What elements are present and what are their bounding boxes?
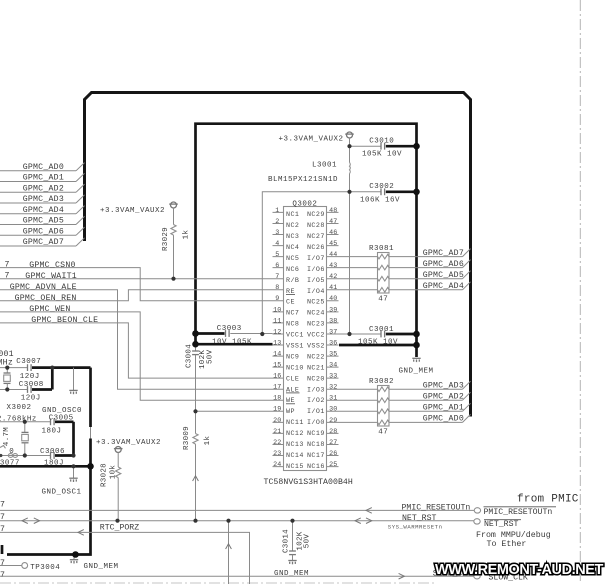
svg-text:X3002: X3002 [7, 404, 32, 412]
svg-text:NC29: NC29 [307, 211, 325, 219]
svg-text:31: 31 [329, 395, 337, 403]
crystal X3002 [22, 422, 29, 456]
svg-text:NC8: NC8 [286, 321, 299, 329]
capacitor C3004 [185, 344, 214, 434]
inductor L3001 [268, 161, 350, 184]
svg-text:1k: 1k [182, 230, 190, 240]
svg-text:SYS_WARMRESETn: SYS_WARMRESETn [388, 524, 443, 531]
svg-text:GPMC_AD7: GPMC_AD7 [23, 238, 64, 247]
svg-text:GND_OSC1: GND_OSC1 [42, 488, 82, 496]
svg-text:GPMC_AD6: GPMC_AD6 [423, 260, 464, 269]
stub (cut component, bottom left) [1, 545, 4, 554]
resistor lead fragment (4.7M, cut) [0, 446, 6, 449]
wire VCC1 branch to pin 12 [262, 192, 349, 334]
svg-text:I/O7: I/O7 [307, 255, 325, 263]
svg-text:39: 39 [329, 306, 337, 314]
wire VSS1 pin 13 thick [196, 343, 273, 346]
svg-text:27: 27 [329, 439, 337, 447]
wire GPMC_OEN_REN to RE pin 8 [0, 290, 273, 303]
svg-text:26: 26 [329, 450, 337, 458]
svg-text:I/O3: I/O3 [307, 386, 325, 394]
wire RTC_PORZ [0, 524, 250, 584]
svg-text:30: 30 [329, 406, 337, 414]
resistor R3077 0 ohm [0, 446, 20, 468]
svg-text:R3028: R3028 [100, 463, 108, 487]
svg-text:NC22: NC22 [307, 353, 325, 361]
test point TP3004 [0, 563, 60, 573]
svg-text:R/B: R/B [286, 277, 299, 285]
wire GPMC_AD5 (left bus entry) [0, 216, 85, 225]
svg-text:GPMC_AD5: GPMC_AD5 [423, 271, 464, 280]
svg-text:GPMC_AD7: GPMC_AD7 [423, 249, 464, 258]
svg-text:13: 13 [273, 339, 281, 347]
wire GPMC_AD1 (left bus entry) [0, 173, 85, 182]
svg-text:WWW.REMONT-AUD.NET: WWW.REMONT-AUD.NET [435, 562, 603, 578]
svg-text:11: 11 [273, 317, 281, 325]
watermark [435, 562, 603, 578]
junction dots (thin nets) [5, 144, 351, 523]
svg-text:33: 33 [329, 373, 337, 381]
svg-text:TP3004: TP3004 [30, 564, 60, 572]
svg-text:120J: 120J [21, 394, 41, 402]
svg-text:To Ether: To Ether [487, 539, 527, 549]
svg-text:NC27: NC27 [307, 233, 325, 241]
svg-text:NC24: NC24 [307, 310, 325, 318]
wire GND_OSC1 thick (y=466.3) [0, 465, 91, 468]
svg-text:41: 41 [329, 284, 337, 292]
svg-text:C3010: C3010 [369, 138, 394, 146]
svg-text:5: 5 [275, 251, 279, 259]
svg-text:0: 0 [9, 448, 14, 456]
power +3.3VAM_VAUX2 (R3028) [114, 447, 123, 453]
svg-text:NC23: NC23 [307, 321, 325, 329]
svg-text:9: 9 [275, 295, 279, 303]
svg-text:GND_MEM: GND_MEM [399, 367, 434, 375]
svg-text:C3006: C3006 [40, 448, 65, 456]
svg-text:7: 7 [275, 273, 279, 281]
svg-text:47: 47 [378, 295, 388, 303]
power +3.3VAM_VAUX2 (top) [345, 132, 354, 138]
wire GPMC_WAIT1 to R/B pin 7 [0, 272, 273, 281]
resistor array R3082 47 [369, 378, 394, 436]
svg-text:6: 6 [275, 262, 279, 270]
svg-text:VCC1: VCC1 [286, 332, 304, 340]
svg-text:46: 46 [329, 229, 337, 237]
svg-text:NC14: NC14 [286, 452, 304, 460]
svg-text:120J: 120J [20, 373, 40, 381]
Q3002 left pin names [286, 211, 304, 471]
svg-text:GPMC_AD0: GPMC_AD0 [423, 415, 464, 424]
svg-text:NC17: NC17 [307, 452, 325, 460]
wire PMIC_RESETOUTn [0, 503, 556, 517]
svg-text:47: 47 [329, 218, 337, 226]
capacitor C3001 [339, 326, 416, 346]
svg-text:45: 45 [329, 240, 337, 248]
svg-text:36: 36 [329, 339, 337, 347]
svg-text:R3082: R3082 [369, 378, 394, 386]
svg-text:NC26: NC26 [307, 244, 325, 252]
wire GPMC_BEON_CLE to CLE pin 16 [0, 316, 273, 378]
svg-text:R3009: R3009 [183, 426, 191, 450]
svg-text:GPMC_AD3: GPMC_AD3 [423, 382, 464, 391]
svg-text:43: 43 [329, 262, 337, 270]
arrow on x=228.5 wire [226, 544, 232, 549]
svg-text:NC2: NC2 [286, 222, 299, 230]
wire +3.3VAM_VAUX2 to L3001 and C3010 [349, 138, 351, 192]
svg-text:Q3002: Q3002 [292, 200, 317, 208]
Q3002 right pin numbers 48-25 [329, 207, 337, 469]
svg-text:GPMC_CSN0: GPMC_CSN0 [29, 261, 75, 270]
svg-text:21: 21 [273, 428, 281, 436]
svg-text:23: 23 [273, 450, 281, 458]
svg-text:NC3: NC3 [286, 233, 299, 241]
svg-text:47: 47 [378, 428, 388, 436]
svg-text:106K 16V: 106K 16V [360, 196, 400, 204]
svg-text:C3005: C3005 [49, 415, 74, 423]
svg-text:C3002: C3002 [369, 183, 394, 191]
svg-text:4: 4 [275, 240, 279, 248]
svg-text:NC12: NC12 [286, 430, 304, 438]
svg-text:I/O5: I/O5 [307, 277, 325, 285]
svg-text:18: 18 [273, 395, 281, 403]
svg-text:42: 42 [329, 273, 337, 281]
svg-text:from PMIC: from PMIC [517, 494, 579, 506]
wire GPMC_AD7 (left bus entry) [0, 238, 85, 247]
svg-text:VSS1: VSS1 [286, 343, 304, 351]
svg-text:C3008: C3008 [19, 381, 44, 389]
svg-text:50V: 50V [206, 349, 214, 364]
svg-text:CLE: CLE [286, 375, 299, 383]
svg-text:GPMC_AD4: GPMC_AD4 [23, 206, 64, 215]
svg-text:4.7M: 4.7M [3, 427, 11, 446]
wire GPMC_AD2 (right, via R3082) [339, 392, 471, 401]
svg-text:GPMC_AD6: GPMC_AD6 [23, 228, 64, 237]
svg-text:7: 7 [0, 559, 5, 568]
svg-text:GPMC_AD4: GPMC_AD4 [423, 282, 464, 291]
svg-text:NC4: NC4 [286, 244, 299, 252]
IC Q3002 (TC58NVG1S3HTA00B4H NAND flash) [264, 200, 353, 487]
svg-text:10k: 10k [109, 465, 117, 480]
svg-text:PMIC_RESETOUTn: PMIC_RESETOUTn [402, 503, 471, 512]
resistor R3009 1k [183, 426, 212, 521]
wire GPMC_AD7 (right, via R3081) [339, 249, 471, 258]
wire GPMC_AD4 (right, via R3081) [339, 282, 471, 291]
wire osc node D (y=455.5) [0, 455, 50, 457]
resistor R3028 10k [100, 453, 120, 521]
svg-text:NC6: NC6 [286, 266, 299, 274]
bus GPMC_AD[0:7] [85, 93, 471, 417]
svg-text:NC5: NC5 [286, 255, 299, 263]
capacitor C3010 [350, 138, 416, 159]
svg-text:16: 16 [273, 373, 281, 381]
svg-text:1: 1 [275, 207, 279, 215]
svg-text:25: 25 [329, 461, 337, 469]
capacitor C3014 [282, 521, 311, 561]
svg-text:7: 7 [0, 501, 5, 510]
svg-text:7: 7 [5, 261, 10, 270]
svg-text:NC7: NC7 [286, 310, 299, 318]
svg-text:BLM15PX121SN1D: BLM15PX121SN1D [268, 176, 338, 184]
svg-text:NC16: NC16 [307, 463, 325, 471]
Q3002 right pin names [307, 211, 325, 471]
svg-text:GPMC_BEON_CLE: GPMC_BEON_CLE [31, 316, 98, 325]
svg-text:I/O2: I/O2 [307, 397, 325, 405]
svg-text:WP: WP [286, 408, 295, 416]
svg-text:GPMC_AD1: GPMC_AD1 [23, 174, 64, 183]
svg-text:I/O6: I/O6 [307, 266, 325, 274]
Q3002 left pin numbers 1-24 [273, 207, 281, 469]
svg-text:NC18: NC18 [307, 441, 325, 449]
svg-text:19: 19 [273, 406, 281, 414]
svg-text:From MMPU/debug: From MMPU/debug [476, 530, 551, 540]
svg-text:+3.3VAM_VAUX2: +3.3VAM_VAUX2 [96, 439, 161, 447]
wire VSS2 pin 36 to rail [339, 344, 415, 347]
power +3.3VAM_VAUX2 (R3029) [169, 202, 178, 208]
svg-text:NET_RST: NET_RST [484, 520, 518, 529]
svg-text:C3014: C3014 [282, 529, 290, 553]
capacitor C3006 [40, 448, 65, 468]
wire GPMC_AD0 (right, via R3082) [339, 414, 471, 423]
svg-text:37: 37 [329, 328, 337, 336]
svg-text:22: 22 [273, 439, 281, 447]
svg-text:44: 44 [329, 251, 337, 259]
ground GND_OSC0 [42, 368, 82, 415]
svg-text:28: 28 [329, 428, 337, 436]
svg-text:17: 17 [273, 384, 281, 392]
svg-text:+3.3VAM_VAUX2: +3.3VAM_VAUX2 [279, 136, 344, 144]
svg-text:105K 10V: 105K 10V [362, 151, 402, 159]
capacitor C3007 [16, 358, 41, 381]
svg-text:C3003: C3003 [217, 325, 242, 333]
svg-text:GPMC_AD3: GPMC_AD3 [23, 195, 64, 204]
wire GPMC_AD6 (right, via R3081) [339, 260, 471, 269]
wire GND_MEM net (thick rail) [196, 124, 417, 357]
wire osc node B (y=389.5) [0, 389, 27, 391]
svg-text:PMIC_RESETOUTn: PMIC_RESETOUTn [484, 508, 553, 517]
svg-text:12: 12 [273, 328, 281, 336]
svg-text:+3.3VAM_VAUX2: +3.3VAM_VAUX2 [100, 207, 165, 215]
svg-text:2: 2 [275, 218, 279, 226]
svg-text:GPMC_AD5: GPMC_AD5 [23, 217, 64, 226]
svg-text:I/O1: I/O1 [307, 408, 325, 416]
svg-text:L3001: L3001 [312, 161, 337, 169]
svg-text:3: 3 [275, 229, 279, 237]
svg-text:32: 32 [329, 384, 337, 392]
svg-text:14: 14 [273, 351, 281, 359]
svg-text:GPMC_WEN: GPMC_WEN [29, 305, 70, 314]
capacitor C3003 [196, 325, 273, 346]
svg-text:GPMC_AD2: GPMC_AD2 [423, 393, 464, 402]
svg-text:TC58NVG1S3HTA00B4H: TC58NVG1S3HTA00B4H [264, 478, 353, 487]
Q3002 pin stubs [273, 212, 339, 466]
svg-text:R3029: R3029 [162, 227, 170, 251]
crystal X3001 [4, 368, 11, 390]
resistor array R3081 47 [369, 245, 394, 303]
svg-text:24: 24 [273, 461, 281, 469]
svg-text:8: 8 [275, 284, 279, 292]
junction dots (thick nets) [72, 143, 420, 558]
ground GND_MEM (bottom left) [70, 555, 119, 572]
svg-text:NC9: NC9 [286, 353, 299, 361]
wire GPMC_AD4 (left bus entry) [0, 206, 85, 215]
svg-text:180J: 180J [42, 428, 62, 436]
wire GPMC_AD1 (right, via R3082) [339, 403, 471, 412]
svg-text:CE: CE [286, 299, 295, 307]
wire NET_RST [0, 514, 521, 531]
svg-text:15: 15 [273, 362, 281, 370]
resistor R3029 1k [162, 208, 191, 279]
capacitor C3005 [42, 415, 74, 436]
svg-text:20: 20 [273, 417, 281, 425]
wire GPMC_WEN to WE pin 18 [0, 305, 273, 400]
svg-text:C3007: C3007 [16, 358, 41, 366]
svg-text:GPMC_AD1: GPMC_AD1 [423, 404, 464, 413]
svg-text:C3001: C3001 [369, 326, 394, 334]
svg-text:7: 7 [0, 571, 5, 580]
wire to bottom edge (x=228.5) [228, 521, 230, 584]
wire osc node C (y=422) [0, 421, 50, 423]
wire GPMC_AD0 (left bus entry) [0, 163, 85, 172]
svg-text:NC28: NC28 [307, 222, 325, 230]
svg-text:40: 40 [329, 295, 337, 303]
svg-text:10: 10 [273, 306, 281, 314]
svg-text:GPMC_ADVN_ALE: GPMC_ADVN_ALE [10, 283, 77, 292]
ground GND_MEM (rail) [412, 358, 420, 362]
wire GPMC_ADVN_ALE to ALE pin 17 [0, 283, 273, 389]
wire GPMC_AD3 (right, via R3082) [339, 381, 471, 390]
svg-text:NC15: NC15 [286, 463, 304, 471]
wire GND vertical (x=90.5) [89, 368, 92, 427]
svg-text:NC19: NC19 [307, 430, 325, 438]
svg-text:VSS2: VSS2 [307, 343, 325, 351]
svg-text:34: 34 [329, 362, 337, 370]
svg-text:NC1: NC1 [286, 211, 299, 219]
svg-text:32.768kHz: 32.768kHz [0, 416, 37, 424]
wire WP pin 19 [196, 410, 273, 412]
svg-text:VCC2: VCC2 [307, 332, 325, 340]
wire GPMC_AD6 (left bus entry) [0, 227, 85, 236]
ground GND_OSC1 [42, 466, 82, 496]
ground GND_MEM (C3014) [274, 561, 309, 579]
svg-text:NC25: NC25 [307, 299, 325, 307]
svg-text:I/O0: I/O0 [307, 419, 325, 427]
svg-text:50V: 50V [303, 534, 311, 549]
svg-text:NC20: NC20 [307, 375, 325, 383]
wire VCC net (L3001 out to VCC2/C3001) [349, 192, 351, 334]
svg-text:GND_MEM: GND_MEM [84, 563, 119, 571]
svg-text:48: 48 [329, 207, 337, 215]
svg-text:NC13: NC13 [286, 441, 304, 449]
svg-text:38: 38 [329, 317, 337, 325]
wire SLOW_CLK [0, 570, 528, 583]
svg-text:29: 29 [329, 417, 337, 425]
svg-text:1k: 1k [204, 436, 212, 446]
svg-text:I/O4: I/O4 [307, 288, 325, 296]
arrow on R3009 wire [193, 476, 199, 481]
wire GPMC_CSN0 to CE pin 9 [0, 261, 273, 301]
capacitor C3002 [350, 183, 416, 204]
svg-text:NC21: NC21 [307, 364, 325, 372]
wire GPMC_AD3 (left bus entry) [0, 195, 85, 204]
svg-text:RTC_PORZ: RTC_PORZ [100, 524, 139, 533]
wire osc node A (y=368) [0, 367, 27, 369]
wire GPMC_AD2 (left bus entry) [0, 184, 85, 193]
svg-text:GPMC_AD2: GPMC_AD2 [23, 185, 64, 194]
svg-text:NC11: NC11 [286, 419, 304, 427]
svg-text:GPMC_AD0: GPMC_AD0 [23, 163, 64, 172]
svg-text:R3081: R3081 [369, 245, 394, 253]
svg-text:NET_RST: NET_RST [402, 514, 436, 523]
svg-text:GPMC_WAIT1: GPMC_WAIT1 [25, 272, 77, 281]
svg-text:NC10: NC10 [286, 364, 304, 372]
svg-text:C3004: C3004 [185, 344, 193, 368]
capacitor C3008 [19, 381, 44, 402]
svg-text:GPMC_OEN_REN: GPMC_OEN_REN [15, 294, 77, 303]
svg-text:35: 35 [329, 351, 337, 359]
wire GPMC_AD5 (right, via R3081) [339, 271, 471, 280]
